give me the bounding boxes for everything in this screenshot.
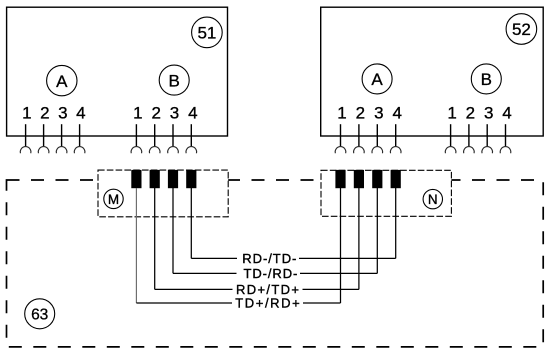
wire M2-N2 vertical from connector M [154, 188, 156, 289]
pin 4 (51B) [186, 104, 198, 154]
port label B (box 51) [159, 65, 189, 95]
svg-text:TD+/RD+: TD+/RD+ [235, 296, 301, 311]
male pin 2 (connector N) [354, 170, 364, 188]
wire M4-N4 vertical from connector M [190, 188, 192, 258]
wire M3-N3 horizontal run [173, 272, 377, 274]
pin 2 (52B) [464, 104, 476, 154]
device box 52 [321, 7, 544, 136]
svg-text:2: 2 [151, 104, 160, 123]
svg-text:2: 2 [466, 104, 475, 123]
male pin 2 (connector M) [150, 170, 160, 188]
connector M box (dashed) [98, 170, 228, 217]
pin 2 lead (52B) [468, 124, 470, 146]
pin 4 lead (51A) [79, 124, 81, 146]
wire M1-N1 horizontal run [136, 302, 340, 304]
pin 1 lead (51A) [25, 124, 27, 146]
svg-text:M: M [108, 192, 119, 207]
svg-text:4: 4 [392, 104, 401, 123]
port label A (box 51) [47, 65, 77, 95]
device box 51 [7, 7, 228, 136]
pin 3 lead (51B) [172, 124, 174, 146]
pin 2 (52A) [354, 104, 366, 154]
svg-text:3: 3 [170, 104, 179, 123]
pin 4 lead (52B) [505, 124, 507, 146]
pin 1 socket contact (52B) [445, 147, 456, 154]
pin 2 lead (52A) [358, 124, 360, 146]
svg-text:2: 2 [40, 104, 49, 123]
pin 1 socket contact (51B) [131, 147, 142, 154]
pin 1 lead (52A) [340, 124, 342, 146]
pin 1 lead (51B) [135, 124, 137, 146]
male pin 1 (connector N) [335, 170, 345, 188]
wire M3-N3 vertical to connector N [376, 188, 378, 273]
pin 4 (52B) [500, 104, 512, 154]
pin 1 (51B) [131, 104, 143, 154]
pin 1 (51A) [20, 104, 31, 154]
wire M4-N4 horizontal run [191, 257, 395, 259]
svg-text:B: B [481, 70, 492, 89]
pin 3 (52A) [372, 104, 384, 154]
wire M2-N2 horizontal run [155, 288, 359, 290]
wire M1-N1 vertical to connector N [340, 188, 342, 303]
signal label TD+/RD+ [232, 296, 303, 311]
pin 3 socket contact (51B) [168, 147, 179, 154]
pin 3 lead (51A) [61, 124, 63, 146]
pin 3 (52B) [482, 104, 494, 154]
connector N label [423, 189, 442, 208]
svg-text:1: 1 [22, 104, 31, 123]
wire M4-N4 vertical to connector N [395, 188, 397, 258]
pin 3 (51B) [168, 104, 180, 154]
pin 4 socket contact (52A) [390, 147, 401, 154]
connector N box (dashed) [321, 170, 451, 216]
svg-text:63: 63 [31, 306, 48, 323]
pin 3 (51A) [56, 104, 67, 154]
svg-text:A: A [371, 70, 383, 89]
pin 3 socket contact (51A) [56, 147, 67, 154]
svg-text:1: 1 [133, 104, 142, 123]
pin 2 socket contact (52A) [354, 147, 365, 154]
pin 2 socket contact (51A) [38, 147, 49, 154]
male pin 3 (connector N) [372, 170, 382, 188]
svg-text:RD-/TD-: RD-/TD- [242, 251, 297, 266]
pin 4 lead (51B) [190, 124, 192, 146]
port label A (box 52) [362, 64, 392, 94]
svg-text:52: 52 [512, 20, 531, 39]
pin 2 lead (51A) [43, 124, 45, 146]
svg-text:1: 1 [447, 104, 456, 123]
pin 1 lead (52B) [450, 124, 452, 146]
pin 3 socket contact (52A) [372, 147, 383, 154]
pin 3 lead (52A) [376, 124, 378, 146]
port label B (box 52) [471, 64, 501, 94]
svg-text:TD-/RD-: TD-/RD- [244, 266, 299, 281]
cable shield box 63 (outer dashed) [7, 180, 544, 347]
reference designator 52 [506, 14, 537, 45]
pin 1 (52A) [335, 104, 347, 154]
svg-text:1: 1 [337, 104, 346, 123]
pin 1 (52B) [445, 104, 457, 154]
pin 4 socket contact (51A) [74, 147, 85, 154]
male pin 1 (connector M) [131, 170, 141, 188]
signal label RD+/TD+ [233, 282, 303, 297]
svg-text:4: 4 [76, 104, 85, 123]
reference designator 63 [25, 299, 55, 329]
wire M3-N3 vertical from connector M [172, 188, 174, 273]
wire M1-N1 vertical from connector M [135, 188, 137, 303]
svg-text:3: 3 [58, 104, 67, 123]
svg-text:4: 4 [502, 104, 511, 123]
wire M2-N2 vertical to connector N [358, 188, 360, 289]
pin 4 lead (52A) [395, 124, 397, 146]
pin 2 (51A) [38, 104, 49, 154]
pin 4 (52A) [390, 104, 402, 154]
svg-text:N: N [428, 192, 438, 207]
svg-text:51: 51 [197, 23, 216, 42]
svg-text:A: A [56, 72, 68, 91]
male pin 4 (connector M) [186, 170, 196, 188]
svg-text:3: 3 [374, 104, 383, 123]
male pin 3 (connector M) [168, 170, 178, 188]
pin 3 lead (52B) [486, 124, 488, 146]
svg-text:3: 3 [484, 104, 493, 123]
signal label RD-/TD- [237, 251, 299, 266]
reference designator 51 [192, 17, 223, 48]
signal label TD-/RD- [237, 266, 301, 281]
pin 2 (51B) [149, 104, 161, 154]
pin 4 socket contact (52B) [500, 147, 511, 154]
pin 2 socket contact (51B) [149, 147, 160, 154]
pin 4 socket contact (51B) [186, 147, 197, 154]
connector M label [104, 189, 123, 208]
pin 4 (51A) [74, 104, 85, 154]
pin 2 socket contact (52B) [464, 147, 475, 154]
pin 1 socket contact (51A) [20, 147, 31, 154]
pin 1 socket contact (52A) [335, 147, 346, 154]
male pin 4 (connector N) [391, 170, 401, 188]
svg-text:2: 2 [356, 104, 365, 123]
svg-text:B: B [169, 71, 180, 90]
pin 3 socket contact (52B) [482, 147, 493, 154]
pin 2 lead (51B) [154, 124, 156, 146]
svg-text:4: 4 [188, 104, 197, 123]
